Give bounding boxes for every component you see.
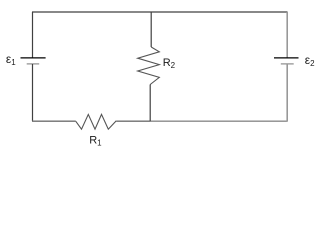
svg-text:ε1: ε1	[6, 52, 16, 67]
svg-text:R2: R2	[163, 57, 176, 70]
battery E2 short plate	[281, 63, 294, 65]
wire left upper	[32, 12, 34, 58]
wire bottom left	[32, 120, 76, 122]
wire middle bottom stub	[149, 85, 151, 122]
wire top	[32, 11, 288, 13]
wire bottom middle	[116, 120, 150, 122]
battery E1 long plate	[21, 57, 46, 59]
resistor R2	[138, 47, 160, 85]
resistor R1	[76, 114, 117, 129]
battery E2 long plate	[274, 57, 299, 59]
svg-text:R1: R1	[89, 135, 102, 148]
svg-text:ε2: ε2	[305, 53, 315, 68]
wire right upper	[286, 12, 288, 58]
wire middle top stub	[150, 12, 152, 47]
battery E1 short plate	[27, 63, 40, 65]
junction bottom node	[151, 120, 288, 122]
wire left lower	[32, 64, 34, 121]
wire right lower	[286, 64, 288, 122]
